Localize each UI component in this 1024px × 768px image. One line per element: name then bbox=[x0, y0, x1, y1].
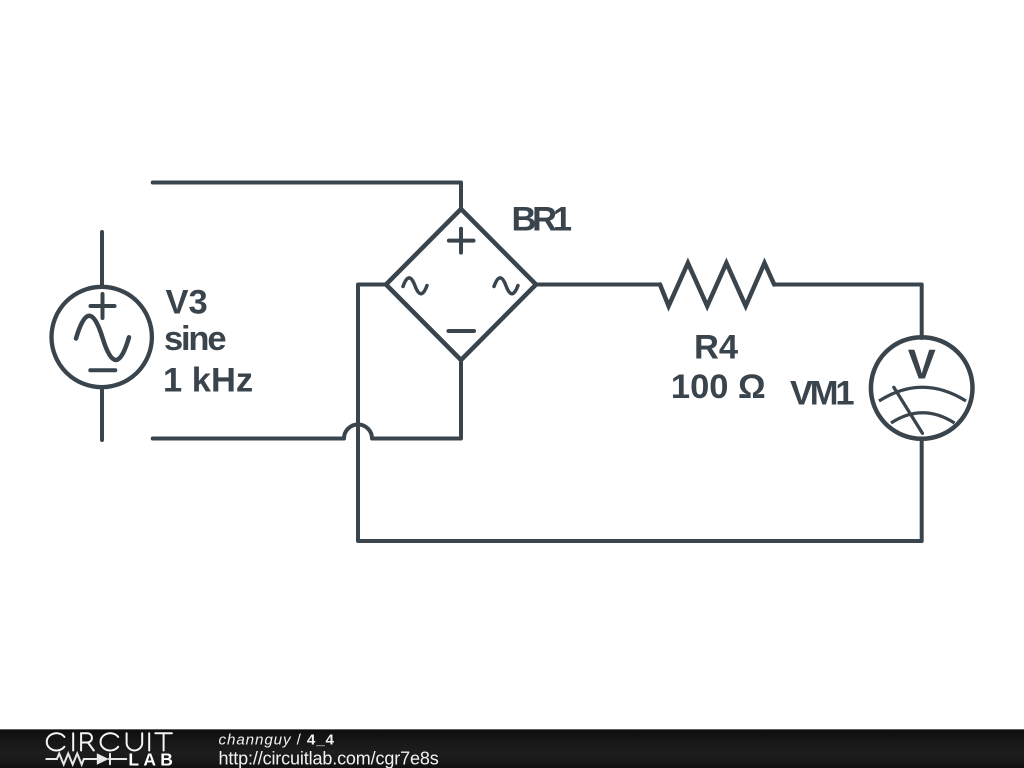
resistor R4 bbox=[660, 263, 774, 306]
voltage source V3 bottom lead bbox=[100, 387, 104, 440]
logo letter I bbox=[72, 733, 74, 750]
svg-text:http://circuitlab.com/cgr7e8s: http://circuitlab.com/cgr7e8s bbox=[219, 748, 439, 768]
svg-text:V: V bbox=[908, 340, 936, 387]
svg-text:LAB: LAB bbox=[128, 750, 173, 768]
CircuitLab logo: CIRCUIT drawn thin bbox=[47, 733, 172, 750]
logo diode triangle bbox=[97, 753, 109, 764]
wire top: left rail to bridge top vertex bbox=[153, 183, 461, 210]
svg-text:channguy / 4_4: channguy / 4_4 bbox=[219, 731, 335, 748]
logo letter C bbox=[101, 733, 119, 750]
svg-text:VM1: VM1 bbox=[790, 375, 855, 413]
logo letter C bbox=[47, 733, 65, 750]
svg-text:100 Ω: 100 Ω bbox=[671, 368, 766, 406]
wire: resistor R4 to voltmeter top bbox=[774, 285, 922, 339]
svg-text:1 kHz: 1 kHz bbox=[163, 361, 253, 399]
voltage source V3 bbox=[51, 287, 151, 387]
logo letter U bbox=[127, 733, 143, 750]
wire bottom rail with hop over vertical wire bbox=[153, 360, 461, 439]
logo mini schematic: wire resistor diode bbox=[46, 754, 126, 765]
wire: bridge right vertex to resistor R4 bbox=[536, 283, 660, 287]
svg-text:BR1: BR1 bbox=[512, 200, 573, 238]
voltmeter VM1 bbox=[871, 337, 973, 439]
logo letter T bbox=[155, 733, 172, 750]
logo letter R bbox=[81, 733, 94, 750]
wire: bridge left vertex down to bottom return rail to voltmeter bottom bbox=[358, 285, 922, 542]
svg-text:sine: sine bbox=[164, 320, 227, 358]
bridge rectifier BR1 bbox=[386, 209, 536, 360]
voltage source V3 top lead bbox=[100, 232, 104, 287]
logo letter I bbox=[148, 733, 150, 750]
svg-text:R4: R4 bbox=[694, 329, 738, 367]
svg-text:V3: V3 bbox=[166, 283, 208, 321]
